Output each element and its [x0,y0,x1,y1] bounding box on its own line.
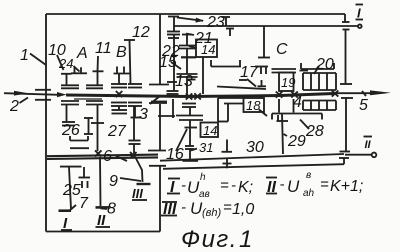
svg-text:14: 14 [201,42,215,57]
svg-text:C: C [276,41,288,58]
svg-text:20: 20 [315,56,334,73]
svg-text:.: . [250,201,254,218]
svg-text:K+1;: K+1; [330,178,363,195]
svg-text:1: 1 [239,226,252,252]
svg-text:28: 28 [305,123,324,140]
svg-text:-: - [280,176,285,193]
svg-text:U: U [287,177,300,196]
svg-text:14: 14 [203,123,217,138]
svg-text:18: 18 [246,98,261,113]
svg-text:8: 8 [107,201,116,218]
svg-text:в: в [306,170,311,181]
svg-text:23: 23 [206,14,225,31]
svg-text:24: 24 [58,56,73,71]
svg-text:B: B [116,44,127,61]
svg-text:13: 13 [175,73,193,90]
svg-text:-: - [231,177,236,194]
svg-text:-: - [181,177,186,194]
svg-text:9: 9 [109,173,118,190]
svg-text:I: I [357,6,361,21]
svg-text:4: 4 [293,94,302,111]
svg-text:Фиг.: Фиг. [181,226,238,252]
svg-text:-: - [181,199,186,216]
svg-text:17: 17 [240,64,259,81]
svg-text:15: 15 [159,54,177,71]
svg-text:III: III [132,186,143,201]
svg-text:A: A [76,45,88,62]
svg-text:11: 11 [95,40,112,57]
svg-text:(вh): (вh) [202,207,222,219]
svg-text:=: = [320,176,329,193]
svg-text:3: 3 [139,106,148,123]
svg-text:=: = [220,177,229,194]
svg-text:1: 1 [20,47,29,64]
svg-text:5: 5 [359,97,368,114]
svg-text:6: 6 [103,148,112,165]
svg-text:19: 19 [281,75,295,90]
svg-text:II: II [365,139,372,151]
svg-text:=: = [223,199,232,216]
svg-text:31: 31 [199,140,213,155]
svg-text:26: 26 [61,122,80,139]
svg-text:ah: ah [303,188,315,199]
svg-text:29: 29 [287,133,306,150]
svg-text:30: 30 [246,139,264,156]
svg-text:25: 25 [62,182,81,199]
svg-text:27: 27 [107,123,127,140]
svg-text:h: h [200,172,206,183]
svg-text:K;: K; [238,179,253,196]
svg-text:2: 2 [9,98,19,115]
svg-text:12: 12 [132,24,150,41]
svg-text:16: 16 [166,146,184,163]
